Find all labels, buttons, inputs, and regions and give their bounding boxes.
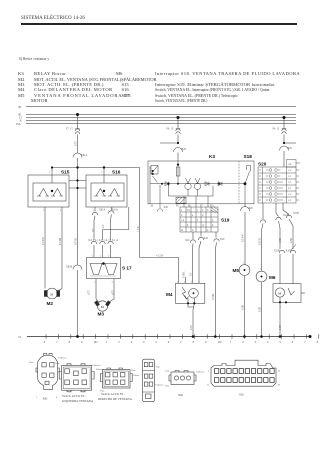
svg-text:0.5: 0.5 <box>190 272 193 276</box>
svg-text:0.5B: 0.5B <box>242 305 245 310</box>
svg-text:X61A: X61A <box>99 209 105 212</box>
svg-text:0.35B: 0.35B <box>212 293 215 300</box>
svg-text:2: 2 <box>118 341 120 344</box>
svg-text:X20: X20 <box>220 238 225 241</box>
svg-text:S18: S18 <box>244 154 253 159</box>
svg-text:2: 2 <box>202 209 204 212</box>
svg-text:X20: X20 <box>185 239 190 242</box>
svg-text:b/c: b/c <box>187 209 191 212</box>
svg-text:30: 30 <box>151 204 154 207</box>
svg-text:Vito: Vito <box>156 366 161 369</box>
svg-text:a: a <box>181 209 183 212</box>
svg-text:S19: S19 <box>221 218 230 223</box>
svg-text:Switch. ACTII. EL.: Switch. ACTII. EL. <box>101 392 125 396</box>
svg-text:0.75: 0.75 <box>88 290 91 295</box>
svg-text:e: e <box>192 214 194 217</box>
svg-text:X25: X25 <box>249 207 254 210</box>
svg-text:85: 85 <box>176 204 179 207</box>
svg-text:F4 15: F4 15 <box>273 128 280 131</box>
svg-text:0.5: 0.5 <box>92 228 95 232</box>
svg-text:30F: 30F <box>288 163 292 166</box>
svg-text:5/F: 5/F <box>288 193 292 196</box>
svg-text:6: 6 <box>292 341 294 344</box>
svg-text:6: 6 <box>168 341 170 344</box>
svg-text:1: 1 <box>106 341 108 344</box>
svg-text:Füse: Füse <box>55 362 61 365</box>
svg-text:10: 10 <box>278 370 281 373</box>
svg-text:M: M <box>50 292 53 296</box>
svg-text:0.75: 0.75 <box>75 141 78 146</box>
svg-text:n: n <box>192 229 194 232</box>
svg-text:1: 1 <box>243 262 245 265</box>
svg-text:0.35: 0.35 <box>190 325 193 330</box>
svg-text:2: 2 <box>101 171 103 174</box>
svg-text:2/F: 2/F <box>288 175 292 178</box>
svg-text:IZQUIERDA VENTANA: IZQUIERDA VENTANA <box>62 399 94 403</box>
svg-text:h: h <box>187 224 189 227</box>
svg-text:11: 11 <box>207 384 210 387</box>
svg-text:0.5: 0.5 <box>102 224 105 228</box>
svg-text:M: M <box>101 305 104 309</box>
svg-text:5: 5 <box>279 341 281 344</box>
svg-text:1: 1 <box>208 370 210 373</box>
svg-text:7: 7 <box>304 341 306 344</box>
svg-text:110: 110 <box>217 341 222 344</box>
svg-text:Fahrzeu: Fahrzeu <box>96 368 105 371</box>
svg-text:31: 31 <box>18 335 22 339</box>
svg-text:d: d <box>202 214 204 217</box>
svg-text:2: 2 <box>100 255 102 258</box>
svg-text:M4: M4 <box>166 292 173 297</box>
svg-text:0.5BL: 0.5BL <box>183 271 186 278</box>
svg-text:i j: i j <box>202 224 204 227</box>
svg-text:0.5B: 0.5B <box>279 325 282 330</box>
svg-text:X20: X20 <box>164 206 169 209</box>
svg-text:Fahrzeu: Fahrzeu <box>156 384 165 387</box>
svg-text:3: 3 <box>112 281 114 284</box>
svg-text:0.35 B: 0.35 B <box>259 238 262 245</box>
svg-text:X61B: X61B <box>66 266 72 269</box>
svg-text:1: 1 <box>92 255 94 258</box>
svg-text:Cap: Cap <box>165 370 170 373</box>
svg-text:K3: K3 <box>209 154 215 159</box>
svg-text:30: 30 <box>18 105 22 109</box>
svg-text:DERECHO DE VENTANA: DERECHO DE VENTANA <box>98 397 133 401</box>
svg-text:0.75: 0.75 <box>112 290 115 295</box>
svg-text:4: 4 <box>56 396 58 399</box>
svg-text:X20: X20 <box>204 237 209 240</box>
svg-text:g: g <box>212 219 214 222</box>
svg-text:X61A: X61A <box>112 209 118 212</box>
svg-text:X10F: X10F <box>274 250 280 253</box>
svg-text:Füse: Füse <box>131 369 137 372</box>
svg-text:Fahrn: Fahrn <box>133 374 140 377</box>
svg-text:X20: X20 <box>182 148 187 151</box>
svg-text:X61A|X61A|X61A: X61A|X61A|X61A <box>88 239 118 242</box>
svg-text:1: 1 <box>49 171 51 174</box>
svg-text:S20: S20 <box>239 393 244 397</box>
svg-text:S16: S16 <box>112 170 121 175</box>
svg-text:M3: M3 <box>98 312 105 317</box>
svg-text:2: 2 <box>242 341 244 344</box>
svg-text:Fahrzeu: Fahrzeu <box>59 357 68 360</box>
svg-text:6/F: 6/F <box>288 199 292 202</box>
svg-text:b: b <box>181 214 183 217</box>
svg-text:F6 15: F6 15 <box>167 128 174 131</box>
svg-text:Füse: Füse <box>29 361 35 364</box>
svg-text:4: 4 <box>267 341 269 344</box>
svg-text:M6: M6 <box>269 275 276 280</box>
svg-text:9: 9 <box>205 341 207 344</box>
svg-text:6: 6 <box>44 341 46 344</box>
svg-text:S 17: S 17 <box>122 266 132 271</box>
svg-text:X61: X61 <box>43 397 49 401</box>
svg-text:Füse: Füse <box>165 385 171 388</box>
svg-text:20: 20 <box>278 384 281 387</box>
svg-text:9: 9 <box>81 341 83 344</box>
svg-text:+1.5 R: +1.5 R <box>156 255 163 258</box>
svg-text:5: 5 <box>155 341 157 344</box>
svg-text:1: 1 <box>280 306 282 309</box>
svg-text:4/F: 4/F <box>288 187 292 190</box>
svg-text:3/F: 3/F <box>288 181 292 184</box>
svg-text:M5: M5 <box>233 268 240 273</box>
svg-text:15A: 15A <box>16 122 22 126</box>
svg-text:X10F: X10F <box>286 250 292 253</box>
svg-text:102: 102 <box>93 341 98 344</box>
svg-text:1: 1 <box>197 209 199 212</box>
svg-text:7: 7 <box>180 341 182 344</box>
svg-text:X22: X22 <box>288 147 293 150</box>
svg-text:1.5 R: 1.5 R <box>137 226 140 232</box>
svg-text:p: p <box>207 229 209 232</box>
svg-text:0.5B: 0.5B <box>290 238 293 243</box>
svg-text:0.5B: 0.5B <box>259 307 262 312</box>
svg-text:3: 3 <box>131 341 133 344</box>
svg-text:c d: c d <box>181 219 185 222</box>
svg-text:1/F: 1/F <box>288 169 292 172</box>
svg-text:1: 1 <box>260 268 262 271</box>
svg-text:S15: S15 <box>61 170 70 175</box>
svg-text:M2: M2 <box>47 301 54 306</box>
svg-text:1: 1 <box>36 396 38 399</box>
svg-text:Fahrzeu: Fahrzeu <box>197 371 206 374</box>
svg-text:4: 4 <box>60 209 62 212</box>
svg-text:X61A: X61A <box>81 154 87 157</box>
svg-text:3: 3 <box>207 209 209 212</box>
svg-text:k: k <box>212 224 214 227</box>
svg-text:2: 2 <box>43 209 45 212</box>
svg-text:3: 3 <box>108 255 110 258</box>
svg-text:X10F: X10F <box>283 214 289 217</box>
svg-text:8: 8 <box>69 341 71 344</box>
svg-text:1: 1 <box>94 281 96 284</box>
svg-text:f: f <box>197 219 198 222</box>
svg-text:3: 3 <box>255 341 257 344</box>
svg-text:0.5 BR: 0.5 BR <box>59 237 62 245</box>
svg-text:Switch. ACTII. EL.: Switch. ACTII. EL. <box>62 394 86 398</box>
svg-text:8: 8 <box>317 341 319 344</box>
svg-text:X62: X62 <box>178 393 184 397</box>
svg-text:7: 7 <box>56 341 58 344</box>
svg-text:8: 8 <box>193 341 195 344</box>
svg-text:4: 4 <box>143 341 145 344</box>
svg-text:S20: S20 <box>258 162 267 167</box>
svg-text:M: M <box>278 291 281 295</box>
svg-text:0.5 SW: 0.5 SW <box>242 234 245 242</box>
svg-text:0.5 SW: 0.5 SW <box>42 237 45 245</box>
svg-text:0.75 B: 0.75 B <box>75 238 78 245</box>
svg-text:m: m <box>181 229 183 232</box>
svg-text:X10F: X10F <box>293 212 299 215</box>
svg-text:1: 1 <box>230 341 232 344</box>
svg-text:F7 15: F7 15 <box>66 128 73 131</box>
svg-text:0.5B: 0.5B <box>279 238 282 243</box>
svg-text:Fahrzeu: Fahrzeu <box>93 364 102 367</box>
